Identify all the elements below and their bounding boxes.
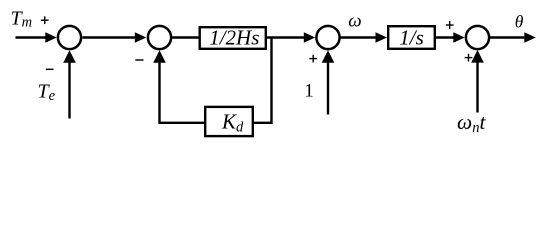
arrowhead theta output (524, 32, 536, 43)
sign minus at S2 (135, 59, 143, 60)
arrowhead into S2 (135, 32, 147, 43)
arrowhead 1 into S3 (322, 50, 335, 63)
wire feedback tap down from node after 1/2Hs (254, 38, 272, 123)
arrowhead into block 1/s (376, 32, 388, 43)
sign plus at S4 bottom (465, 57, 473, 58)
summing junction S3 (316, 26, 339, 49)
summing junction S2 (148, 26, 171, 49)
arrowhead into S1 (45, 32, 57, 43)
arrowhead Te into S1 (63, 50, 76, 63)
sign plus at S3 (309, 58, 317, 59)
block Kd box (205, 107, 253, 136)
svg-text:ωnt: ωnt (457, 110, 486, 136)
wire S2 to block 1/2Hs (172, 36, 199, 38)
svg-text:ω: ω (348, 11, 361, 32)
sign minus at S1 (46, 69, 54, 70)
svg-text:1: 1 (304, 81, 314, 102)
svg-text:1/2Hs: 1/2Hs (209, 26, 259, 50)
wire Tm input (16, 36, 48, 38)
svg-text:1/s: 1/s (399, 26, 424, 50)
sign plus at S4 top (446, 24, 454, 25)
arrowhead into S4 (453, 32, 465, 43)
wire omega_n*t input vertical (476, 60, 478, 113)
wire S3 to block 1/s (341, 36, 378, 38)
wire block 1/2Hs to S3 (267, 36, 306, 38)
wire Te input vertical (68, 61, 70, 119)
arrowhead omega_n*t into S4 (471, 50, 484, 63)
summing junction S1 (58, 26, 81, 49)
block 1/s box (388, 26, 435, 49)
wire S1 to S2 (83, 36, 137, 38)
summing junction S4 (466, 26, 489, 49)
wire constant 1 input vertical (327, 60, 329, 115)
arrowhead feedback into S2 (153, 50, 166, 63)
sign plus at S1 (41, 20, 49, 21)
wire feedback from Kd to S2 (160, 61, 205, 123)
svg-text:θ: θ (515, 11, 524, 31)
wire theta output (490, 36, 526, 38)
wire block 1/s to S4 (436, 36, 455, 38)
arrowhead into S3 (304, 32, 316, 43)
block 1/2Hs box (200, 27, 266, 49)
